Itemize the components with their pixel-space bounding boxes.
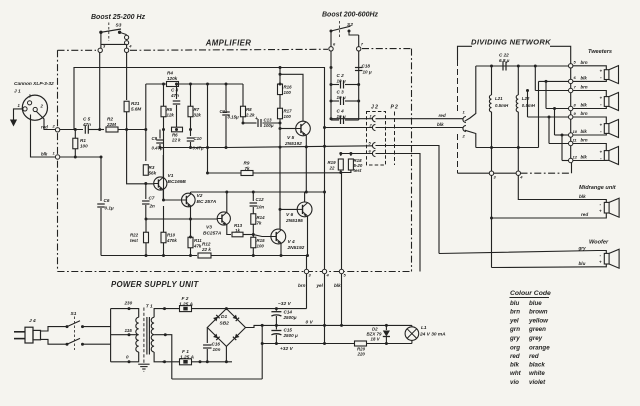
wire: dividing box bottom: [458, 172, 490, 174]
J2 pin 2: [369, 123, 376, 131]
svg-text:2.2k: 2.2k: [245, 113, 255, 118]
resistor R16: [278, 66, 293, 95]
svg-text:BC169B: BC169B: [168, 179, 187, 185]
wire: secondary bottom to F1: [162, 361, 180, 363]
svg-text:220: 220: [357, 352, 366, 357]
wire: bottom rail left: [101, 255, 197, 257]
transistor V2: [182, 193, 217, 207]
capacitor C2: [331, 73, 359, 89]
resistor R13: [232, 223, 243, 237]
svg-text:2N5192: 2N5192: [287, 245, 305, 251]
transistor V6: [285, 202, 312, 224]
svg-text:+: +: [599, 260, 602, 265]
wire: J2 pin5 out to woofer: [376, 146, 440, 254]
wire: -32V rail: [226, 308, 306, 310]
svg-text:vio: vio: [510, 379, 519, 386]
junction dot out1: [330, 117, 333, 120]
wire: top boundary right of S2 (dash-dot): [362, 48, 412, 50]
svg-text:L22: L22: [522, 96, 530, 101]
wire: node3 down to signal line: [99, 53, 101, 130]
label Tweeters: [588, 49, 612, 55]
wire: S1 to transformer bottom: [83, 343, 111, 345]
wire: R13 to column: [243, 234, 253, 236]
connector X1 contact 1: [463, 110, 466, 123]
capacitor C8: [170, 84, 180, 130]
svg-text:100: 100: [284, 90, 292, 95]
wire: plug top to S1: [41, 327, 67, 331]
svg-text:115: 115: [125, 328, 133, 333]
wire: feed node8: [545, 80, 569, 109]
capacitor C10: [187, 136, 204, 151]
colour code legend: [509, 290, 551, 386]
svg-text:V 5: V 5: [287, 135, 295, 141]
svg-text:orange: orange: [529, 344, 550, 351]
wire: feedback line R9 left: [208, 172, 242, 174]
svg-text:J 2: J 2: [371, 105, 378, 111]
fuse F1: [180, 359, 192, 365]
wire: feed node11: [548, 116, 569, 144]
wire: C6 to bottom rail: [100, 208, 102, 256]
transistor V5: [284, 121, 310, 147]
tweeter speaker 1: [573, 66, 619, 84]
svg-text:V1: V1: [168, 173, 174, 179]
capacitor C12: [250, 192, 265, 214]
wire: crossover top feed: [476, 65, 569, 67]
label DIVIDING NETWORK: [471, 38, 551, 47]
transformer T1 primary bracket: [111, 301, 137, 364]
svg-text:C15: C15: [284, 328, 293, 333]
wire: V2 emitter down: [190, 207, 192, 238]
transformer T1 core: [144, 304, 153, 364]
capacitor C16: [203, 328, 221, 364]
wire: J2 pin6 out: [376, 154, 421, 272]
svg-text:10 μ: 10 μ: [363, 70, 372, 75]
svg-text:red: red: [529, 353, 539, 360]
svg-text:5.6M: 5.6M: [131, 107, 141, 112]
svg-text:2500μ: 2500μ: [283, 315, 297, 320]
svg-text:org: org: [510, 344, 520, 351]
label F1: [180, 349, 194, 361]
wire: R16-R17: [279, 95, 281, 109]
svg-text:0.5mH: 0.5mH: [522, 103, 536, 108]
wire: mid rail y192: [191, 191, 325, 193]
label +32V: [280, 346, 293, 352]
svg-text:D1: D1: [221, 314, 227, 320]
label blu woofer: [579, 261, 586, 266]
svg-text:R5: R5: [167, 107, 173, 112]
wire: node3-node4: [494, 172, 516, 174]
junction dots F2 wire: [164, 308, 166, 310]
wire: F2 to bridge: [192, 308, 227, 310]
svg-text:AMPLIFIER: AMPLIFIER: [205, 39, 252, 48]
svg-text:C11: C11: [220, 109, 228, 114]
svg-text:R16: R16: [284, 85, 293, 90]
wire: C5 to R2: [88, 129, 104, 131]
wire: 0V return bottom: [172, 378, 262, 380]
wire: woofer gry: [439, 251, 606, 254]
svg-text:violet: violet: [529, 379, 546, 386]
fuse F2: [180, 306, 192, 312]
junction dots top feed: [490, 65, 537, 68]
wire: midrange red: [492, 175, 607, 218]
junction dot R18/R19: [339, 171, 342, 174]
wire: 0V return vertical: [261, 325, 263, 379]
svg-text:+: +: [599, 209, 602, 214]
capacitor C6: [97, 198, 114, 211]
node 3 (boost sw): [98, 44, 106, 53]
resistor R6: [162, 127, 192, 142]
woofer speaker: [599, 249, 619, 268]
svg-text:Boost 200-600Hz: Boost 200-600Hz: [322, 12, 379, 19]
wire: node5 up into amp: [341, 173, 343, 270]
tweeter speaker 3: [573, 117, 619, 138]
resistor R8: [241, 84, 256, 123]
svg-text:47n: 47n: [82, 122, 91, 127]
node 5 psu (blk): [334, 269, 347, 288]
svg-text:C10: C10: [194, 136, 203, 141]
svg-text:22 k: 22 k: [171, 138, 181, 143]
svg-text:56k: 56k: [149, 171, 157, 176]
connector P2 line: [394, 112, 396, 166]
svg-text:blk: blk: [510, 361, 519, 368]
connector J2 outline: [367, 105, 399, 166]
transistor V1: [154, 173, 187, 190]
svg-text:Midrange unit: Midrange unit: [579, 185, 617, 191]
junction dot R13 node: [252, 233, 255, 236]
svg-text:2N5192: 2N5192: [284, 141, 302, 147]
wire: ground line from node1: [60, 156, 101, 158]
node 2 input: [41, 124, 60, 133]
wire: V2 top stub: [190, 192, 192, 194]
wire: V4 base link: [253, 235, 270, 237]
junction dot midrange red: [490, 217, 493, 220]
svg-text:C 2: C 2: [337, 73, 345, 78]
wire: feed node6: [539, 81, 569, 147]
svg-text:22 k: 22 k: [201, 247, 211, 252]
node 4 (boost sw): [124, 44, 132, 53]
midrange speaker: [599, 198, 619, 217]
wire: R15 down: [252, 248, 254, 256]
junction dot out2: [323, 126, 326, 129]
svg-text:1k: 1k: [235, 228, 240, 233]
junction dot V2 base: [162, 199, 165, 202]
svg-text:C 3: C 3: [337, 90, 345, 95]
wire: V4 emitter down: [280, 244, 282, 256]
wire: C9/C10 common rail: [160, 147, 226, 149]
label Boost 200-600Hz: [322, 12, 379, 19]
wire: dividing box top-left: [458, 46, 473, 60]
junction dots mid rail: [225, 191, 326, 194]
svg-text:47k: 47k: [193, 244, 202, 249]
wire: J1 pin1 to node 1 (blk): [31, 115, 56, 158]
junction dot gnd: [100, 156, 103, 159]
wire: feedback line R9 right: [253, 172, 341, 174]
svg-text:SB2: SB2: [220, 321, 230, 327]
transistor V4: [271, 229, 305, 251]
node 9 tweeter terminal: [569, 111, 588, 119]
svg-text:POWER SUPPLY UNIT: POWER SUPPLY UNIT: [111, 280, 199, 289]
svg-text:J 1: J 1: [14, 89, 21, 95]
node 5 tweeter terminal: [569, 60, 588, 68]
svg-text:100: 100: [80, 144, 88, 149]
svg-text:230: 230: [124, 301, 133, 306]
wire: tweeter terminal bus: [570, 66, 572, 161]
svg-text:brn: brn: [581, 60, 588, 65]
svg-text:C16: C16: [212, 342, 221, 347]
resistor R3: [143, 165, 156, 176]
capacitor C18: [330, 64, 372, 103]
wire: amplifier pcb top edge: [74, 68, 325, 270]
wire: dividing box left lower (dashed): [457, 134, 459, 173]
switch S3: [99, 23, 128, 45]
wire: V1 base feed: [127, 130, 154, 184]
wire: C7 to V3 base: [146, 218, 217, 220]
wire: bottom rail right: [211, 255, 307, 257]
svg-text:R1: R1: [80, 138, 86, 143]
svg-text:2500 μ: 2500 μ: [283, 333, 298, 338]
node 6 (boost sw): [329, 42, 336, 52]
wire: R19 down join: [340, 170, 342, 173]
svg-text:F 1: F 1: [182, 349, 189, 355]
wire: blk line J2 to X1: [376, 127, 463, 129]
wire: V3 collector up: [226, 192, 228, 213]
svg-text:10n: 10n: [257, 205, 265, 210]
connector J1 body: [18, 94, 48, 121]
wire: V1 emitter down: [162, 190, 164, 201]
wire: X1-2 down to return: [465, 130, 476, 147]
svg-text:R15: R15: [257, 238, 266, 243]
wire: S3 contact to node 4: [126, 45, 128, 48]
wire: V3 emitter to R13: [227, 225, 231, 235]
svg-text:yel: yel: [509, 317, 519, 324]
junction dot V6 base: [279, 208, 282, 211]
resistor R15: [251, 237, 265, 248]
svg-text:+: +: [600, 149, 603, 154]
svg-text:R2: R2: [107, 117, 113, 122]
svg-text:Colour Code: Colour Code: [510, 290, 551, 297]
wire: +32V rail left: [262, 343, 354, 345]
wire: plug bottom to S1: [41, 339, 67, 344]
wire: V6 emitter down: [307, 216, 309, 255]
svg-text:Tweeters: Tweeters: [588, 49, 612, 55]
svg-text:brown: brown: [529, 309, 548, 316]
label gry woofer: [578, 246, 587, 251]
wire: J1 pin2 to node 2 (red): [37, 112, 56, 130]
transistor V3: [203, 212, 230, 237]
wire: R2 to V1 stage: [118, 129, 146, 131]
svg-text:24 V 30 mA: 24 V 30 mA: [419, 332, 446, 338]
svg-text:100μ: 100μ: [264, 123, 274, 128]
svg-text:R11: R11: [194, 238, 202, 243]
junction dot boost column/pcb edge: [330, 66, 333, 69]
capacitor C7: [142, 184, 155, 219]
junction dots fb6: [339, 152, 352, 155]
wire: outer boundary top-left (dash-dot): [58, 49, 97, 51]
wire: F1 to bridge bottom: [192, 361, 233, 363]
label blk wire: [437, 122, 444, 127]
svg-text:J 4: J 4: [29, 318, 36, 324]
wire: amp top rail: [179, 83, 243, 85]
wire: R14 to R15: [252, 225, 254, 238]
label AMPLIFIER: [205, 39, 252, 48]
wire: node6 bus down: [330, 51, 332, 120]
svg-text:S1: S1: [71, 311, 77, 317]
capacitor C9: [152, 130, 164, 151]
wire: X1-1 up to crossover: [465, 66, 476, 121]
label Woofer: [589, 240, 609, 246]
wire: amp top rail left: [146, 83, 166, 85]
svg-text:12k: 12k: [167, 113, 175, 118]
svg-text:R9: R9: [244, 161, 250, 166]
svg-text:R3: R3: [149, 165, 155, 170]
svg-text:blu: blu: [510, 300, 519, 307]
svg-text:brn: brn: [581, 111, 588, 116]
wire: outer boundary right (dash-dot): [411, 49, 413, 272]
svg-text:blue: blue: [529, 300, 542, 307]
wire: node4 down to R21: [126, 53, 128, 101]
label Boost 25-200 Hz: [91, 14, 146, 21]
wire: bridge to 0V rail: [246, 325, 263, 327]
node 12 tweeter terminal: [569, 154, 588, 162]
mains plug J4: [14, 327, 41, 343]
node 11 tweeter terminal: [569, 137, 588, 145]
svg-text:2n: 2n: [149, 204, 156, 209]
svg-text:2N5195: 2N5195: [285, 218, 303, 224]
svg-text:red: red: [41, 125, 48, 130]
junction dots F1 wire: [199, 360, 202, 363]
wire: S2 contact to node 7: [358, 35, 360, 47]
junction dot fb: [206, 172, 209, 175]
wire: 0V rail: [262, 324, 412, 326]
junction dot on V3 base line: [189, 218, 192, 221]
wire: V5 collector: [280, 74, 303, 121]
svg-text:18 V: 18 V: [371, 337, 381, 342]
wire: outer boundary left (dash-dot): [57, 50, 59, 271]
svg-text:brn: brn: [581, 138, 588, 143]
zener D2: [367, 325, 391, 343]
wire: midrange blk: [518, 175, 606, 202]
junction dot base V5: [279, 127, 282, 130]
wire: node5 down to 0V rail: [341, 274, 343, 326]
svg-text:C18: C18: [362, 64, 371, 69]
J2 pin 6: [369, 149, 376, 157]
svg-text:test: test: [354, 168, 362, 173]
svg-text:R7: R7: [194, 107, 200, 112]
svg-text:red: red: [439, 113, 446, 118]
svg-text:blk: blk: [41, 152, 48, 157]
svg-text:red: red: [581, 212, 588, 217]
wire: S3 link bar: [101, 43, 127, 45]
label J4: [29, 318, 36, 324]
capacitor C11: [220, 84, 240, 149]
label red wire: [439, 113, 446, 118]
svg-text:R14: R14: [257, 215, 266, 220]
svg-text:blk: blk: [579, 194, 586, 199]
svg-text:10 μ: 10 μ: [337, 79, 346, 84]
resistor R19: [328, 154, 344, 171]
svg-text:R22: R22: [130, 233, 139, 238]
wire: S3 pole to node 3: [100, 32, 102, 48]
svg-text:R21: R21: [131, 101, 140, 106]
wire: bottom rail to node 3: [306, 256, 308, 270]
svg-text:T 1: T 1: [146, 304, 153, 310]
node 3 dividing: [489, 171, 496, 180]
junction dots on 147 rail: [159, 146, 210, 149]
node 7 tweeter terminal: [569, 84, 588, 92]
svg-text:grey: grey: [528, 335, 543, 342]
svg-text:brn: brn: [298, 283, 306, 288]
J2 pin 1: [370, 114, 376, 122]
label F2: [179, 296, 193, 308]
svg-text:C 22: C 22: [499, 53, 509, 58]
resistor R20: [355, 341, 367, 357]
svg-text:+: +: [600, 95, 603, 100]
connector J1 Cannon XLR label: [14, 81, 54, 95]
svg-text:22: 22: [329, 166, 335, 171]
svg-text:R4: R4: [167, 71, 173, 76]
svg-text:Boost 25-200 Hz: Boost 25-200 Hz: [91, 14, 146, 21]
resistor R21: [124, 101, 141, 112]
svg-text:brn: brn: [581, 85, 588, 90]
resistor R17: [278, 108, 293, 119]
svg-text:C 4: C 4: [337, 109, 345, 114]
svg-text:R8: R8: [246, 107, 252, 112]
bridge rectifier D1: [207, 309, 245, 347]
lamp L1: [405, 325, 446, 344]
resistor R9: [241, 161, 253, 176]
svg-text:R12: R12: [202, 242, 211, 247]
node 6 tweeter terminal: [569, 75, 588, 83]
capacitor C22: [499, 53, 510, 71]
resistor R12: [198, 242, 211, 259]
svg-text:test: test: [130, 238, 138, 243]
svg-text:V2: V2: [197, 193, 203, 199]
svg-text:blk: blk: [581, 103, 588, 108]
svg-text:+: +: [255, 116, 258, 122]
junction dots 0V rail: [261, 324, 388, 327]
tweeter speaker 4: [573, 144, 619, 165]
svg-text:brn: brn: [510, 309, 520, 316]
resistor R1: [73, 128, 88, 159]
svg-text:yellow: yellow: [528, 317, 549, 324]
junction dots bottom rail: [145, 254, 310, 257]
svg-text:blu: blu: [579, 261, 586, 266]
svg-text:47n: 47n: [170, 93, 179, 98]
wire: output to J2 pin1: [331, 118, 372, 120]
wire: S2 pole to node 6: [330, 31, 332, 47]
svg-text:blk: blk: [437, 122, 444, 127]
wire: to V2 base: [164, 199, 182, 201]
svg-text:+: +: [600, 68, 603, 73]
wire: V5 emitter down: [305, 135, 307, 192]
svg-text:120k: 120k: [167, 76, 178, 81]
svg-text:10: 10: [573, 129, 578, 134]
wire: R7 down: [190, 117, 192, 136]
resistor R4: [167, 71, 179, 87]
svg-text:black: black: [529, 361, 545, 368]
svg-text:100: 100: [284, 114, 292, 119]
node 10 tweeter terminal: [569, 129, 588, 137]
wire: feed node9: [526, 89, 569, 117]
resistor R22: [130, 218, 149, 256]
svg-text:C9: C9: [152, 136, 158, 141]
svg-text:+: +: [600, 122, 603, 127]
resistor R14: [251, 214, 265, 226]
node 8 tweeter terminal: [569, 102, 588, 110]
svg-text:0.5mH: 0.5mH: [495, 103, 509, 108]
wire: red line J2 to X1: [376, 118, 463, 120]
inductor L21: [489, 66, 509, 171]
